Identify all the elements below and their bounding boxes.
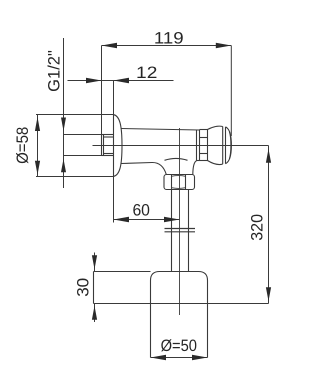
hex nut right face line	[185, 175, 187, 190]
svg-text:119: 119	[154, 29, 184, 47]
button cap rim front edge	[225, 127, 227, 164]
dimension 12 extension line	[113, 81, 115, 115]
valve cup (bell over flange)	[114, 115, 123, 177]
threaded connector inner bottom edge	[104, 153, 114, 155]
vertical centerline	[179, 128, 181, 315]
hex nut chamfer arcs	[172, 176, 186, 189]
dimension 119 line	[102, 45, 232, 47]
G1/2 leader line	[63, 38, 65, 188]
dimension 320 up arrow	[266, 149, 271, 163]
dimension 12 left arrow (points right)	[86, 78, 102, 84]
threaded connector bottom edge	[102, 155, 114, 157]
valve barrel bottom right edge	[197, 160, 200, 162]
svg-text:12: 12	[136, 64, 157, 82]
bottom plate left edge	[93, 272, 95, 304]
hex nut outline	[164, 175, 195, 190]
flange bottom edge	[36, 176, 114, 178]
dimension 58 up arrow	[35, 117, 40, 131]
svg-text:60: 60	[132, 201, 150, 219]
dimension 119 right extension line	[230, 46, 232, 137]
collar right edge	[207, 130, 209, 161]
valve barrel bottom left edge with fillet into branch	[121, 162, 166, 174]
dimension 60 right arrow	[164, 217, 180, 223]
flange top edge	[36, 114, 114, 116]
collar bottom edge	[200, 160, 208, 162]
pipe joint upper line	[165, 228, 196, 230]
button cap dome	[226, 127, 232, 164]
threaded connector top edge	[102, 134, 114, 136]
dimension 60 line	[114, 219, 180, 221]
hex nut left face line	[171, 175, 173, 190]
valve branch right fillet	[193, 161, 197, 175]
dimension 119 left extension line	[101, 46, 103, 135]
valve branch saddle arc	[165, 158, 188, 160]
svg-text:Ø=50: Ø=50	[161, 337, 197, 355]
svg-text:30: 30	[74, 278, 92, 297]
dimension 320 line	[268, 146, 270, 304]
dimension 12 line	[68, 80, 174, 82]
flange hole bottom line	[64, 155, 102, 157]
button cap rim rear edge	[222, 127, 224, 165]
bottom plate top edge	[94, 271, 151, 273]
dimension 119 right arrow	[216, 43, 232, 49]
dimension 30 down arrow	[92, 255, 97, 269]
socket (diameter 50 cup) outline	[151, 272, 208, 358]
bottom plate bottom edge / 320 extension	[94, 303, 269, 305]
dimension 30 up arrow	[92, 306, 97, 320]
collar left edge	[199, 130, 201, 161]
flange hole top line	[64, 134, 102, 136]
pipe joint lower line	[165, 231, 196, 233]
flange right edge	[113, 115, 115, 177]
dimension 60 extension line	[113, 177, 115, 223]
dimension diameter 58 line	[37, 115, 39, 177]
threaded connector outer left edge	[101, 135, 103, 156]
collar top edge	[200, 129, 208, 131]
G1/2 down arrow	[61, 118, 66, 132]
dimension 119 left arrow	[102, 43, 118, 49]
dimension 12 right arrow (points left)	[114, 78, 130, 84]
collar rib line lower	[200, 153, 208, 155]
valve barrel top edge	[121, 129, 200, 131]
pipe right wall	[188, 190, 190, 272]
pipe left wall	[171, 190, 173, 272]
dimension 60 left arrow	[114, 217, 130, 223]
dimension 50 right arrow	[192, 355, 208, 361]
collar rib line upper	[200, 137, 208, 139]
G1/2 up arrow	[61, 159, 66, 173]
dimension 58 down arrow	[35, 161, 40, 175]
threaded connector inner top edge	[104, 136, 114, 138]
svg-text:Ø=58: Ø=58	[14, 127, 32, 164]
svg-text:G1/2": G1/2"	[45, 50, 63, 92]
dimension 320 down arrow	[266, 287, 271, 301]
valve barrel end cap line	[196, 130, 198, 161]
button cap bottom edge	[208, 161, 223, 165]
dimension 30 line upper segment	[94, 253, 96, 272]
dimension 30 line lower segment	[94, 304, 96, 323]
threaded connector inner left edge	[103, 135, 105, 156]
dimension 50 line	[151, 357, 208, 359]
horizontal centerline	[93, 145, 269, 147]
svg-text:320: 320	[248, 214, 266, 241]
dimension 50 left arrow	[151, 355, 167, 361]
button cap inner contour	[229, 132, 231, 159]
button cap top edge	[208, 126, 223, 129]
